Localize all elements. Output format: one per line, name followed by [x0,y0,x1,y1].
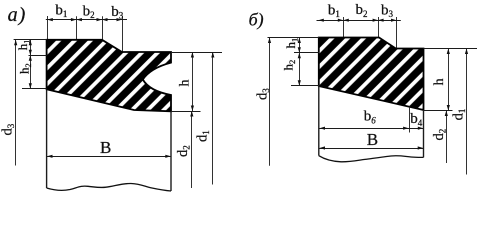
d1 dimension line (b) [466,49,468,175]
label b1 (b) [328,2,340,19]
dimension line b-row (a) [46,19,127,21]
d2 dimension line (a) [191,111,193,188]
arrows b1/b2 boundary (a) [71,18,82,21]
h1/h2 middle arrows (a) [29,50,32,61]
d1 dimension line (a) [212,52,214,185]
h1-h2 chained dimension line (a) [30,40,32,89]
d3 arrow (a) [14,40,17,46]
groove-top extension line (b) [424,48,478,50]
h2 bottom arrow (a) [29,83,32,89]
B right arrow (b) [418,146,424,149]
extension line b1/b2 (a) [76,16,78,39]
h top arrow (a) [191,52,194,58]
label d1 (a) [195,130,212,142]
label B (b) [367,130,378,149]
h1/h2 middle arrows (b) [298,47,301,58]
b6 left arrow (b) [320,127,326,130]
label b1 (a) [55,2,67,19]
h2 level line (a) [22,88,47,90]
h bottom arrow (b) [447,105,450,111]
extension line b2/b3 (b) [378,17,380,37]
h dimension line (b) [448,49,450,111]
extension line b3 right (b) [396,17,398,48]
extension line b6/b4 (b) [409,107,411,133]
arrow b1 left end (b) [318,19,324,22]
h bottom arrow (a) [191,106,194,112]
label b) [249,10,264,31]
d3 dimension line (a) [15,40,17,166]
right web edge (b) [423,110,425,157]
label b6 (b) [364,109,377,126]
svg-text:B: B [367,130,378,149]
d3 arrow (b) [268,38,271,44]
arrows b1/b2 boundary (b) [338,19,349,22]
d2 arrow (a) [190,111,193,117]
b6 right arrow (b) [403,127,409,130]
arrows b2/b3 boundary (b) [373,19,384,22]
arrows b2/b3 boundary (a) [97,18,108,21]
label b2 (b) [356,2,368,19]
svg-text:б): б) [249,10,264,31]
label h1 (a) [15,40,32,51]
d1 arrow (a) [211,52,214,58]
h1 top arrow (b) [298,38,301,44]
label d1 (b) [450,109,467,121]
h2 level line (b) [291,85,320,87]
label b2 (a) [83,3,95,20]
b6 dimension line (b) [319,128,409,130]
b4 right arrow (b) [418,127,424,130]
label d2 (b) [431,129,448,141]
extension line b2/b3 (a) [102,16,104,39]
hatched rim cross-section (b) [319,38,424,111]
d1 arrow (b) [465,49,468,55]
label d3 (a) [0,123,16,135]
rim bottom extension line (a) [171,111,201,113]
arrow b3 right end (b) [391,19,397,22]
label h (a) [177,80,192,87]
h1-h2 chained dimension line (b) [299,38,301,86]
label b4 (b) [410,111,423,128]
h1 level line (b) [294,52,320,54]
extension line b1/b2 (b) [343,17,345,37]
left web edge (a) [46,89,48,188]
extension line b3 right (a) [122,16,124,51]
d2 dimension line (b) [446,111,448,164]
B dimension line (b) [319,148,424,150]
arrow b1 left end (a) [47,18,53,21]
svg-text:h: h [177,80,192,87]
label b3 (b) [381,2,394,19]
label a) [8,4,27,26]
h1 level line (a) [29,55,47,57]
break wavy line (b) [319,156,424,162]
svg-text:h: h [432,78,447,85]
label h2 (b) [281,60,298,71]
groove-top extension line (a) [171,52,222,54]
h top arrow (b) [447,49,450,55]
d3 dimension line (b) [269,38,271,166]
rim bottom extension line (b) [424,110,453,112]
B dimension line (a) [46,156,171,158]
B left arrow (a) [47,155,53,158]
left web edge (b) [318,86,320,156]
label h1 (b) [283,38,300,49]
h2 bottom arrow (b) [298,80,301,86]
break wavy line (a) [47,183,171,191]
svg-text:B: B [100,138,111,157]
extension line left edge up (a) [47,16,49,40]
label b3 (a) [111,4,124,21]
d2 arrow (b) [445,111,448,117]
label d3 (b) [254,88,271,100]
h dimension line (a) [192,52,194,111]
hatched rim cross-section (a) [47,40,171,112]
top surface extension line left (b) [268,37,319,39]
svg-text:а): а) [8,4,27,26]
B right arrow (a) [165,155,171,158]
B left arrow (b) [320,146,326,149]
dimension line b-row (b) [317,20,401,22]
label B (a) [100,138,111,157]
top surface extension line left (a) [14,39,47,41]
h1 top arrow (a) [29,40,32,46]
label h2 (a) [17,63,33,74]
label h (b) [432,78,447,85]
right web edge (a) [170,111,172,191]
b4 dimension line (b) [409,128,424,130]
arrow b3 right end (a) [117,18,123,21]
label d2 (a) [175,145,192,157]
